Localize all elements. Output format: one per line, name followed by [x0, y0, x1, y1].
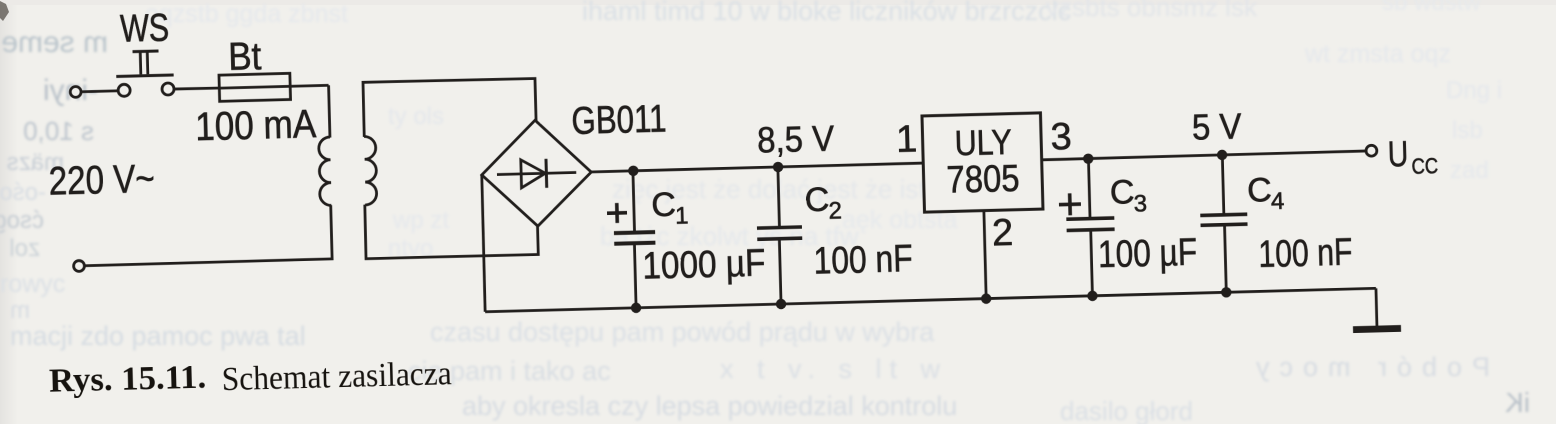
svg-text:dasilo głord: dasilo głord: [1060, 396, 1193, 424]
wire switch to fuse: [174, 88, 219, 89]
input terminal (bottom left): [73, 260, 84, 271]
svg-text:8,5 V: 8,5 V: [757, 117, 836, 160]
svg-text:WS: WS: [120, 6, 170, 50]
capacitor C3 top lead: [1088, 159, 1090, 219]
svg-text:1: 1: [895, 119, 917, 162]
regulator text 7805: [946, 158, 1020, 202]
+V rail bridge to regulator pin 1: [591, 163, 923, 172]
capacitor C1 plates: [614, 232, 655, 244]
node C1 ground junction: [631, 302, 642, 313]
label 100 nF (C2): [813, 238, 913, 283]
pushbutton WS moving bridge: [116, 75, 173, 77]
pushbutton WS actuator stem and cap: [133, 51, 160, 75]
svg-text:m seme: m seme: [1, 26, 108, 59]
svg-text:3: 3: [1133, 190, 1147, 217]
label C1: [651, 185, 689, 230]
capacitor C4 bottom lead: [1225, 226, 1227, 292]
label C2: [804, 180, 842, 225]
node C2 ground junction: [776, 299, 787, 310]
svg-text:x t v. s lt w: x t v. s lt w: [720, 354, 948, 384]
capacitor C4 plates: [1200, 214, 1247, 225]
svg-text:C: C: [651, 186, 677, 225]
label 220 V~: [48, 157, 155, 204]
svg-text:7805: 7805: [946, 158, 1020, 202]
svg-text:ty ols: ty ols: [388, 103, 444, 130]
svg-text:czasu dostępu pam powód pr: czasu dostępu pam powód prądu w wybra: [430, 317, 935, 347]
svg-text:100 nF: 100 nF: [813, 238, 913, 283]
svg-text:oqzstb ggda zbnst: oqzstb ggda zbnst: [145, 0, 348, 28]
transformer secondary winding: [363, 136, 377, 205]
svg-text:Bt: Bt: [228, 35, 262, 79]
capacitor C4 top lead: [1222, 155, 1224, 215]
node C1 +V junction: [628, 165, 639, 176]
label C4: [1247, 171, 1285, 216]
pushbutton WS right contact: [162, 83, 174, 95]
svg-text:C: C: [804, 181, 830, 220]
label C3: [1109, 173, 1147, 218]
svg-text:Rys. 15.11.: Rys. 15.11.: [49, 358, 207, 399]
node C3 +V junction: [1083, 153, 1094, 164]
ground stem wire: [1375, 288, 1379, 326]
regulator pin 2 wire to ground rail: [984, 211, 986, 299]
svg-text:C: C: [1247, 171, 1273, 210]
svg-text:3: 3: [1050, 116, 1072, 159]
label 8,5 V: [757, 117, 836, 160]
capacitor C2 plates: [757, 227, 802, 239]
input terminal (top left, 220 V line): [70, 86, 81, 97]
svg-text:macji zdo pamoc pwa tal: macji zdo pamoc pwa tal: [10, 321, 306, 351]
caption Schemat zasilacza: [221, 355, 452, 398]
capacitor C2 bottom lead: [779, 240, 781, 304]
pin label 1: [895, 119, 917, 162]
wire corner down to transformer primary: [329, 85, 330, 137]
ground rail: [485, 288, 1376, 311]
node C2 +V junction: [773, 162, 784, 173]
svg-text:lsb: lsb: [1452, 117, 1483, 144]
+V rail regulator pin 3 to output: [1042, 151, 1366, 160]
svg-text:aby okresla czy lepsa powiedz: aby okresla czy lepsa powiedzial kontrol…: [462, 391, 957, 421]
node pin 2 ground junction: [981, 293, 992, 304]
capacitor C3 plates: [1066, 218, 1114, 230]
capacitor C2 top lead: [778, 167, 780, 228]
svg-text:ULY: ULY: [954, 122, 1012, 163]
caption Rys. 15.11.: [49, 358, 207, 399]
svg-text:GB011: GB011: [571, 97, 667, 142]
wire secondary top to bridge AC top: [363, 78, 537, 137]
node C4 ground junction: [1221, 287, 1232, 298]
C1 polarity plus sign: [607, 203, 628, 224]
C3 polarity plus sign: [1059, 193, 1082, 216]
svg-text:wt zmsta oqz: wt zmsta oqz: [1304, 40, 1451, 68]
svg-text:wp zt: wp zt: [392, 207, 449, 234]
pin label 3: [1050, 116, 1072, 159]
svg-text:ihaml timd 10 w bloke licznikó: ihaml timd 10 w bloke liczników brzrczcl…: [582, 0, 1071, 26]
label 100 uF: [1098, 231, 1198, 276]
wire input terminal to switch: [81, 89, 118, 93]
svg-text:1000 µF: 1000 µF: [642, 243, 766, 288]
svg-text:1: 1: [675, 202, 689, 229]
bridge rectifier GB011 diamond: [480, 119, 592, 228]
svg-text:s 10,0: s 10,0: [23, 116, 94, 146]
svg-text:100 µF: 100 µF: [1098, 231, 1198, 276]
capacitor C1 top lead: [633, 171, 635, 231]
label WS: [120, 6, 170, 50]
svg-text:zad: zad: [1450, 157, 1489, 184]
regulator text ULY: [954, 122, 1012, 163]
svg-text:100 mA: 100 mA: [195, 102, 317, 149]
svg-text:2: 2: [828, 198, 842, 225]
ground symbol: [1353, 325, 1401, 333]
svg-text:m: m: [10, 297, 30, 324]
wire bridge negative output down to ground rail: [482, 175, 486, 312]
pushbutton WS left contact: [118, 84, 130, 96]
label 100 mA: [195, 102, 317, 149]
svg-text:C: C: [1109, 173, 1135, 212]
capacitor C3 bottom lead: [1091, 231, 1093, 295]
wire through fuse to corner: [219, 85, 328, 88]
svg-text:zol: zol: [9, 235, 40, 262]
svg-text:vzsbts obnsmz lsk: vzsbts obnsmz lsk: [1046, 0, 1258, 22]
svg-text:Dng i: Dng i: [1446, 77, 1502, 104]
svg-text:-ośo: -ośo: [0, 179, 46, 206]
label 5 V: [1191, 106, 1242, 148]
svg-text:U: U: [1387, 133, 1409, 175]
svg-text:sb wdstw: sb wdstw: [1382, 0, 1481, 16]
svg-text:iK: iK: [1505, 387, 1530, 418]
regulator U1 ULY 7805 body: [922, 113, 1043, 212]
svg-text:ćsog: ćsog: [0, 207, 44, 234]
svg-text:2: 2: [992, 212, 1014, 255]
label GB011: [571, 97, 667, 142]
svg-text:Pobór mocy: Pobór mocy: [1246, 352, 1490, 382]
label Bt: [228, 35, 262, 79]
transformer primary winding: [318, 137, 331, 206]
svg-text:100 nF: 100 nF: [1258, 231, 1353, 275]
bridge rectifier internal diode: [497, 158, 577, 189]
fuse Bt body: [219, 73, 291, 101]
output terminal Ucc: [1366, 145, 1377, 156]
capacitor C1 bottom lead: [634, 245, 636, 308]
pin label 2: [992, 212, 1014, 255]
svg-text:CC: CC: [1411, 153, 1438, 179]
svg-text:5 V: 5 V: [1191, 106, 1242, 148]
wire secondary bottom to bridge AC bottom: [365, 200, 539, 259]
label 1000 uF: [642, 243, 766, 288]
label Ucc: [1387, 132, 1438, 179]
svg-text:rowyc: rowyc: [0, 270, 65, 298]
svg-text:Schemat zasilacza: Schemat zasilacza: [221, 355, 452, 398]
node C4 +V junction: [1217, 150, 1228, 161]
node C3 ground junction: [1087, 291, 1098, 302]
label 100 nF (C4): [1258, 231, 1353, 275]
wire bottom terminal to transformer primary: [83, 205, 332, 266]
svg-text:4: 4: [1271, 188, 1285, 215]
svg-text:220 V~: 220 V~: [48, 157, 155, 204]
